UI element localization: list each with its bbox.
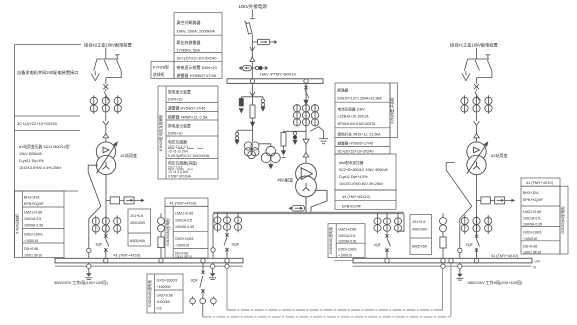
svg-text:300/100V: 300/100V [130,221,146,225]
svg-text:√3 √3 √3 3 kV: √3 √3 √3 3 kV [168,149,189,153]
svg-text:10±2X2.5%/0.4 4%,25kV: 10±2X2.5%/0.4 4%,25kV [19,166,62,170]
svg-text:100/1A 0.5: 100/1A 0.5 [523,217,540,221]
svg-text:避雷器 HY5WZ+17/45: 避雷器 HY5WZ+17/45 [177,72,217,78]
svg-text:17/45kV, 5kA: 17/45kV, 5kA [177,47,201,52]
svg-text:10±2X2.5%/0.4kV 4%,25kV: 10±2X2.5%/0.4kV 4%,25kV [339,182,384,186]
svg-text:EPB+KZ/4F: EPB+KZ/4F [342,205,362,209]
svg-text:GXD50(M)型电柜: GXD50(M)型电柜 [328,226,333,254]
svg-text:0.5/3P 10/10VA: 0.5/3P 10/10VA [168,175,192,179]
svg-text:380/220V 工作II段(200+100回): 380/220V 工作II段(200+100回) [468,279,523,285]
svg-text:+100010: +100010 [338,254,352,258]
svg-text:DD+0.66: DD+0.66 [523,245,537,249]
svg-text:LMZ1+0.66: LMZ1+0.66 [523,210,541,214]
svg-text:避雷器 HY5WZ+17/45: 避雷器 HY5WZ+17/45 [338,141,373,146]
svg-text:GXD+1600/3: GXD+1600/3 [157,279,178,283]
svg-text:10 0.1 0.1: 10 0.1 0.1 [168,166,183,170]
svg-text:41 (TMY+4X10): 41 (TMY+4X10) [170,201,198,205]
svg-text:LMZ1+0.66: LMZ1+0.66 [175,212,193,216]
svg-text:1QF: 1QF [95,242,103,246]
svg-text:KYN28型: KYN28型 [153,65,169,70]
svg-text:电流互感器 10kV: 电流互感器 10kV [338,107,366,112]
svg-text:100/5A 0.35: 100/5A 0.35 [24,224,43,228]
svg-text:DXN+10: DXN+10 [168,132,182,136]
svg-text:41 (TMY+4X10): 41 (TMY+4X10) [114,254,142,258]
svg-text:LMZ1+0.66: LMZ1+0.66 [338,228,356,232]
svg-text:0.5: 0.5 [157,307,162,311]
svg-text:3C+(J)Y22+10+3X240: 3C+(J)Y22+10+3X240 [177,56,218,61]
svg-text:2QF: 2QF [466,243,474,247]
svg-text:避雷器 HY5WZ+17/45: 避雷器 HY5WZ+17/45 [168,106,205,111]
svg-text:LMZ1+0.66: LMZ1+0.66 [24,211,42,215]
svg-text:#1站用变压器 SZ11+800/10型: #1站用变压器 SZ11+800/10型 [19,144,70,149]
svg-text:100/1A 0.5: 100/1A 0.5 [24,217,41,221]
svg-text:10kV 800kVA: 10kV 800kVA [19,152,42,156]
svg-text:BH3+32A: BH3+32A [24,196,40,200]
svg-text:JX1+0.5: JX1+0.5 [130,214,143,218]
svg-text:100/5A 0.5L: 100/5A 0.5L [338,240,357,244]
svg-text:#2站用变: #2站用变 [491,152,507,158]
svg-text:EPN+KQ/4F: EPN+KQ/4F [24,202,45,206]
svg-text:LZZBJ9+10 100/1A: LZZBJ9+10 100/1A [338,115,370,119]
svg-text:√3 √3 3 0.1kV: √3 √3 3 0.1kV [168,170,189,174]
svg-text:100/5A 0.35: 100/5A 0.35 [175,225,194,229]
svg-text:D,ys11 Dy=4%: D,ys11 Dy=4% [19,159,45,163]
svg-text:100/5A 0.35: 100/5A 0.35 [523,223,542,227]
svg-text:带电显示装置 DXN+10: 带电显示装置 DXN+10 [177,64,218,70]
svg-text:L/N: L/N [535,259,541,263]
svg-text:GXD+100/1: GXD+100/1 [523,231,542,235]
svg-text:100/1 5F10: 100/1 5F10 [523,251,541,255]
svg-text:DD+0.66: DD+0.66 [24,247,38,251]
svg-text:自备发电机并网240配电装置接口: 自备发电机并网240配电装置接口 [17,69,78,76]
svg-text:进线柜: 进线柜 [153,72,165,77]
svg-text:LMZ+0.66: LMZ+0.66 [157,294,173,298]
svg-text:GXD50(M)型电柜: GXD50(M)型电柜 [560,206,565,234]
svg-text:100/1 5F10: 100/1 5F10 [24,254,42,258]
svg-text:41 (TMY+4X10): 41 (TMY+4X10) [526,181,554,185]
svg-text:+100010: +100010 [24,239,38,243]
svg-text:#6A配变: #6A配变 [278,177,294,184]
svg-text:熔断器 XRNP+12, 0.5A: 熔断器 XRNP+12, 0.5A [168,115,208,120]
svg-text:真空式断路器: 真空式断路器 [177,19,201,25]
svg-text:#6A配电变压器: #6A配电变压器 [339,160,364,165]
svg-text:#1站用变: #1站用变 [121,152,137,158]
svg-text:氧化锌避雷器: 氧化锌避雷器 [177,39,201,45]
svg-text:SC2+B+800/10, 10kV, 800kVA: SC2+B+800/10, 10kV, 800kVA [339,168,388,172]
svg-text:GXD50(M)型电柜: GXD50(M)型电柜 [165,218,170,246]
svg-text:10kV, 200A, 2000kVA: 10kV, 200A, 2000kVA [177,29,216,34]
svg-text:4QF: 4QF [374,243,382,247]
svg-text:GXD+100/1: GXD+100/1 [338,248,357,252]
svg-text:+100010: +100010 [523,237,537,241]
svg-text:380/220V 工作I段(100+100回): 380/220V 工作I段(100+100回) [54,279,108,285]
svg-text:10kV外接电源: 10kV外接电源 [239,3,268,10]
svg-text:D,ys11 Dyn+4.5%: D,ys11 Dyn+4.5% [339,175,368,179]
svg-text:断路器: 断路器 [338,88,349,93]
svg-text:100/1A 0.5: 100/1A 0.5 [175,218,192,222]
svg-text:DXN+10: DXN+10 [168,98,182,102]
svg-text:JX1+0.5: JX1+0.5 [412,220,425,224]
svg-text:80(5)+6A: 80(5)+6A [130,239,145,243]
svg-text:4X (TMY+40X10): 4X (TMY+40X10) [342,195,370,199]
svg-text:300/100V: 300/100V [412,228,428,232]
svg-text:E5S1P+12T1 250A+31.5kA: E5S1P+12T1 250A+31.5kA [338,97,383,101]
svg-text:带电显示装置: 带电显示装置 [168,90,191,95]
svg-text:GXD50(M)型电柜: GXD50(M)型电柜 [147,279,152,307]
svg-text:GXD+100/1: GXD+100/1 [175,237,194,241]
svg-text:1000/5A: 1000/5A [157,300,171,304]
svg-text:接自#2主变10kV配电装置: 接自#2主变10kV配电装置 [84,42,132,49]
svg-text:电压互感器: 电压互感器 [168,140,187,145]
svg-text:41 (TMY+4X10): 41 (TMY+4X10) [491,254,519,258]
svg-text:80(5)+6A: 80(5)+6A [412,245,427,249]
svg-text:+100010: +100010 [175,244,189,248]
svg-text:10 0.1 0.1 0.1: 10 0.1 0.1 0.1 [168,145,188,149]
svg-text:10kV 3*TMY+80X10: 10kV 3*TMY+80X10 [260,72,297,77]
svg-text:接地开关 JN15+12, 31.5kA: 接地开关 JN15+12, 31.5kA [338,132,382,137]
svg-text:5P30/0.5/0.5 A0/10/5TA: 5P30/0.5/0.5 A0/10/5TA [338,122,376,126]
svg-text:KYN28型 电压互感器柜: KYN28型 电压互感器柜 [158,114,163,151]
svg-text:KYN28型 开关柜: KYN28型 开关柜 [390,97,395,124]
svg-text:0.2/0.5(3P)/CLY 10/10/10VA: 0.2/0.5(3P)/CLY 10/10/10VA [168,154,210,158]
svg-text:BH3+32A: BH3+32A [523,191,539,195]
svg-text:3C+(J)Y22+10+3X240: 3C+(J)Y22+10+3X240 [338,150,374,154]
svg-text:0.4kV出线柜: 0.4kV出线柜 [15,214,20,234]
svg-text:接自#1主变10kV配电装置: 接自#1主变10kV配电装置 [450,42,498,49]
svg-text:3QF: 3QF [232,243,240,247]
svg-text:带电显示装置: 带电显示装置 [168,124,191,129]
svg-text:3QF: 3QF [191,279,199,283]
svg-text:EPN+KQ/4F: EPN+KQ/4F [523,198,544,202]
svg-text:GXD+100/1: GXD+100/1 [24,233,43,237]
svg-text:3C+(J)Y22+10+3X240: 3C+(J)Y22+10+3X240 [17,121,58,126]
svg-text:100/1A 0.5: 100/1A 0.5 [338,234,355,238]
svg-text:+160000: +160000 [157,285,171,289]
